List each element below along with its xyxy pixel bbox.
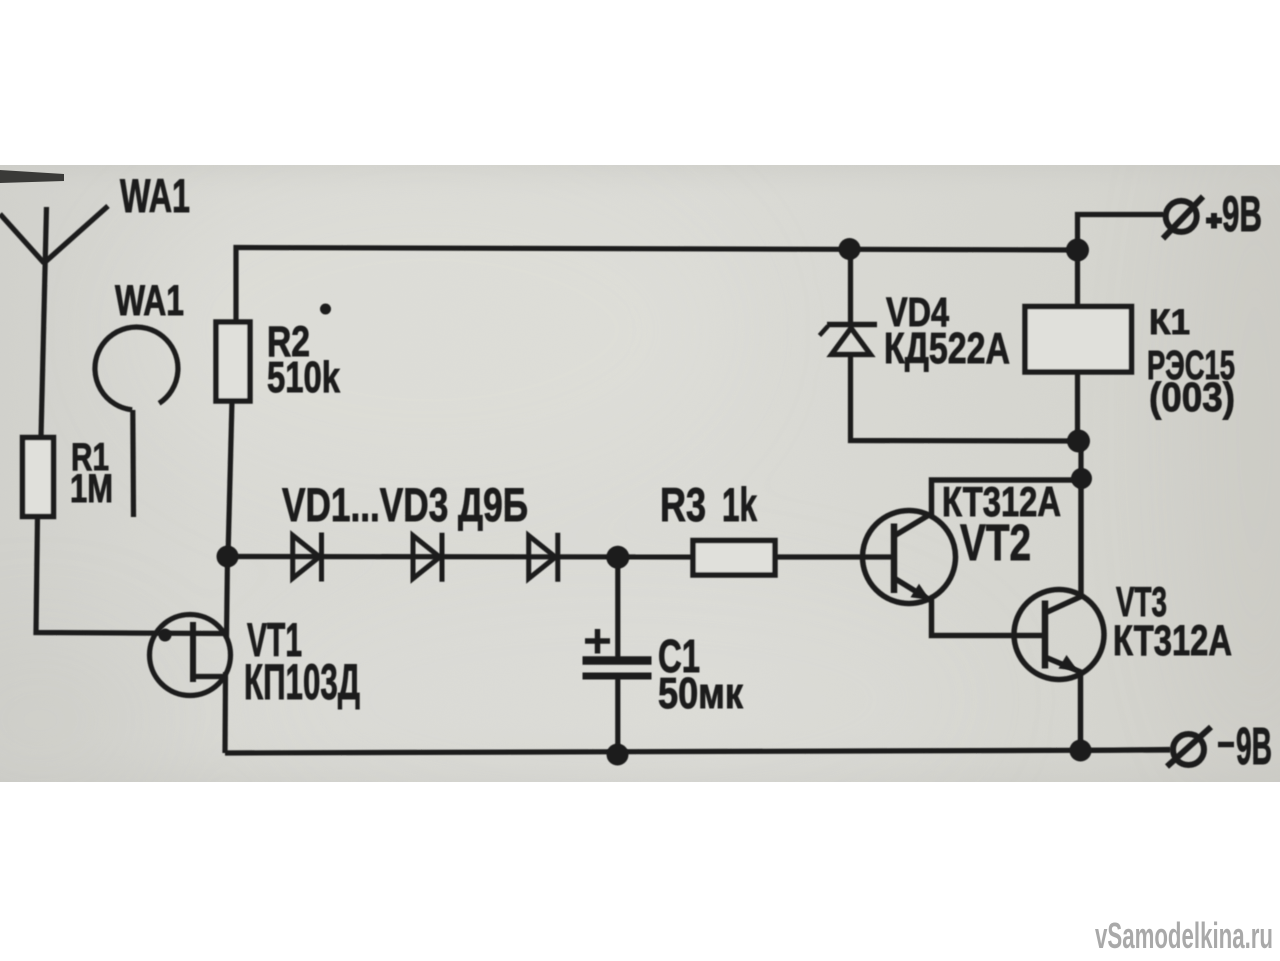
svg-text:1k: 1k bbox=[722, 478, 758, 531]
wire diode row bbox=[228, 554, 693, 560]
junction node VD4 bottom / relay bbox=[1067, 430, 1090, 453]
wire R3 to VT2 base bbox=[775, 554, 894, 559]
capacitor C1 bottom wire bbox=[615, 678, 620, 753]
VT2 emitter lead bbox=[894, 578, 1045, 636]
VT2 base bar bbox=[891, 524, 898, 594]
VD4 cathode bar bbox=[827, 322, 877, 328]
VT1 source wire to bottom rail bbox=[222, 672, 228, 753]
VD4 bar tick bbox=[820, 326, 829, 336]
svg-text:КП103Д: КП103Д bbox=[244, 654, 360, 710]
svg-text:(003): (003) bbox=[1149, 374, 1235, 420]
svg-text:1М: 1М bbox=[70, 467, 113, 511]
wire -9V terminal lead bbox=[1081, 750, 1171, 751]
minus sign of -9V bbox=[1218, 742, 1234, 748]
VT1 channel bbox=[190, 622, 196, 682]
resistor R2 bbox=[216, 322, 250, 401]
wire loop antenna stub bbox=[130, 410, 136, 517]
wire relay top bbox=[1075, 250, 1080, 307]
svg-text:vSamodelkina.ru: vSamodelkina.ru bbox=[1095, 915, 1273, 956]
svg-text:9В: 9В bbox=[1236, 718, 1272, 776]
svg-text:К1: К1 bbox=[1149, 303, 1190, 342]
resistor R1 bbox=[23, 438, 54, 517]
terminal -9V circle bbox=[1173, 734, 1204, 765]
wire node to VT3 collector branch bbox=[1078, 441, 1083, 480]
loop antenna WA1 circle bbox=[95, 327, 178, 410]
svg-text:VD1...VD3 Д9Б: VD1...VD3 Д9Б bbox=[282, 478, 528, 531]
VT3 collector lead bbox=[1045, 478, 1081, 613]
VD4 triangle bbox=[832, 328, 871, 355]
diode VD3 bbox=[529, 533, 558, 582]
wire R2 bottom to diode node bbox=[228, 401, 232, 557]
resistor R3 bbox=[693, 541, 775, 576]
svg-text:WA1: WA1 bbox=[120, 169, 190, 222]
transistor VT3 body bbox=[1014, 590, 1104, 680]
svg-text:КД522А: КД522А bbox=[884, 324, 1010, 373]
relay K1 coil bbox=[1025, 307, 1132, 373]
antenna WA1 mast bbox=[41, 207, 47, 437]
junction node top wire / +9V bbox=[1066, 239, 1089, 262]
VT3 emitter arrow bbox=[1059, 655, 1079, 671]
VT2 emitter arrow bbox=[911, 584, 931, 600]
VT2 collector lead bbox=[894, 480, 1081, 536]
VT1 source lead bbox=[193, 674, 226, 679]
VT1 gate arrow dot bbox=[159, 629, 172, 642]
label dot near R2 bbox=[320, 304, 331, 315]
plus sign of +9V bbox=[1206, 218, 1222, 224]
junction node top wire / VD4 bbox=[839, 238, 861, 260]
capacitor C1 plates bbox=[583, 656, 652, 665]
antenna WA1 left arm bbox=[0, 214, 44, 263]
diode VD4 anode wire bbox=[848, 249, 853, 325]
VT1 drain wire from diode node bbox=[227, 557, 228, 639]
svg-text:КТ312А: КТ312А bbox=[1113, 617, 1232, 665]
svg-text:R3: R3 bbox=[660, 478, 706, 531]
svg-text:VT2: VT2 bbox=[960, 514, 1031, 571]
diode VD2 bbox=[413, 533, 442, 582]
junction node at R2/diode row bbox=[217, 546, 239, 568]
terminal +9V circle bbox=[1166, 201, 1197, 232]
transistor VT2 body bbox=[863, 511, 956, 604]
junction node C1 / bottom rail bbox=[607, 744, 629, 766]
scan edge smudge top-left bbox=[0, 170, 64, 183]
plus sign of C1 bbox=[585, 638, 610, 644]
VD4 bottom wire to relay node bbox=[851, 355, 1078, 442]
bottom rail wire bbox=[225, 750, 1170, 753]
capacitor C1 top wire bbox=[615, 557, 620, 658]
terminal -9V slash bbox=[1167, 727, 1211, 767]
antenna WA1 right arm bbox=[44, 206, 108, 263]
transistor VT1 (FET) body bbox=[150, 615, 231, 696]
terminal +9V slash bbox=[1163, 197, 1203, 239]
svg-text:50мк: 50мк bbox=[658, 669, 744, 718]
junction node VT2 collector bbox=[1071, 468, 1092, 489]
wire R2 top corner bbox=[236, 215, 1163, 323]
VT3 base bar bbox=[1042, 601, 1049, 669]
wire R1 bottom to VT1 gate bbox=[36, 517, 224, 634]
junction node VT3 emitter / bottom rail bbox=[1070, 740, 1092, 762]
junction node diode row / C1 bbox=[606, 546, 629, 569]
svg-text:WA1: WA1 bbox=[115, 277, 184, 325]
VT3 emitter lead bbox=[1045, 657, 1081, 751]
diode VD1 bbox=[293, 533, 322, 582]
wire relay bottom bbox=[1075, 372, 1080, 441]
svg-text:9В: 9В bbox=[1222, 186, 1262, 242]
svg-text:510k: 510k bbox=[267, 353, 340, 402]
